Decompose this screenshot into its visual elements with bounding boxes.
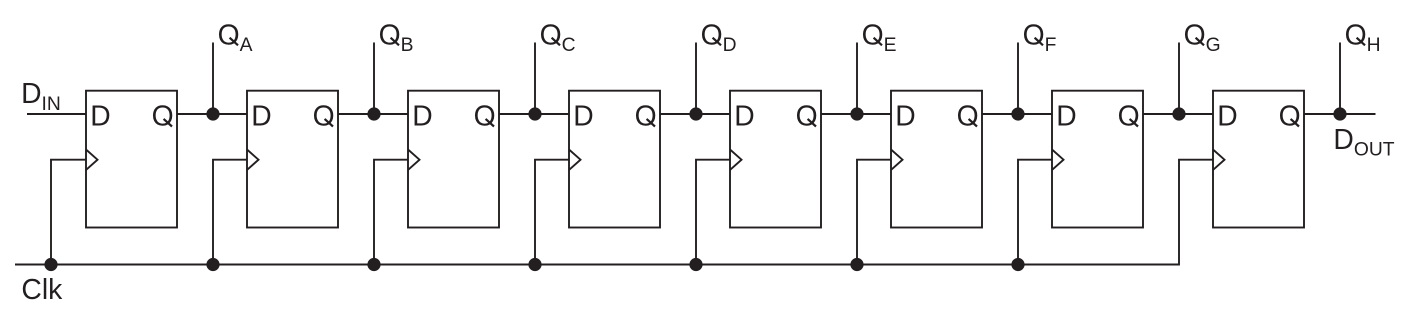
svg-text:DOUT: DOUT [1333,123,1394,161]
wire U4.Q to U5.D [660,113,730,115]
flip-flop U8 body [1213,91,1304,228]
svg-text:OC: OC [540,18,576,56]
U2 clock input triangle [247,150,259,170]
node Clk junction 3 [367,258,380,271]
node QC junction [528,107,541,120]
flip-flop U7 body [1052,91,1143,228]
wire Clk branch to U7 [1018,160,1052,265]
svg-text:O: O [1279,100,1301,132]
svg-text:OA: OA [218,18,253,56]
U5 clock input triangle [730,150,742,170]
flip-flop U2 body [247,91,338,228]
U7 clock input triangle [1052,150,1064,170]
svg-text:OG: OG [1184,18,1221,56]
wire Clk branch to U5 [696,160,730,265]
flip-flop U5 body [730,91,821,228]
svg-text:O: O [635,100,657,132]
svg-text:DIN: DIN [21,77,61,115]
wire QF stub up [1017,43,1019,115]
wire QG stub up [1178,43,1180,115]
svg-text:OH: OH [1345,18,1381,56]
node QB junction [367,107,380,120]
node QG junction [1172,107,1185,120]
svg-text:OB: OB [379,18,414,56]
wire QH stub up [1339,43,1341,115]
wire U5.Q to U6.D [821,113,891,115]
svg-text:D: D [1217,100,1237,132]
node QA junction [206,107,219,120]
wire U2.Q to U3.D [338,113,408,115]
U8 clock input triangle [1213,150,1225,170]
svg-text:OF: OF [1023,18,1057,56]
svg-text:O: O [1118,100,1140,132]
svg-text:D: D [573,100,593,132]
wire U3.Q to U4.D [499,113,569,115]
svg-text:OE: OE [862,18,897,56]
flip-flop U3 body [408,91,499,228]
node Clk junction 7 [1011,258,1024,271]
wire Clk branch to U1 [51,160,86,265]
node Clk junction 6 [850,258,863,271]
svg-text:O: O [474,100,496,132]
node QH junction [1333,107,1346,120]
wire QD stub up [695,43,697,115]
node Clk junction 4 [528,258,541,271]
wire U6.Q to U7.D [982,113,1052,115]
wire U8.Q to Dout [1304,113,1376,115]
svg-text:O: O [152,100,174,132]
wire U7.Q to U8.D [1143,113,1213,115]
svg-text:D: D [412,100,432,132]
U6 clock input triangle [891,150,903,170]
flip-flop U6 body [891,91,982,228]
wire QB stub up [373,43,375,115]
wire Clk branch to U2 [213,160,247,265]
U3 clock input triangle [408,150,420,170]
wire Clk branch to U4 [535,160,569,265]
wire Din input [27,113,86,115]
wire Clk branch to U6 [857,160,891,265]
svg-text:D: D [251,100,271,132]
U4 clock input triangle [569,150,581,170]
wire QE stub up [856,43,858,115]
svg-text:O: O [957,100,979,132]
svg-text:D: D [1056,100,1076,132]
node Clk junction 1 [44,258,57,271]
node QD junction [689,107,702,120]
svg-text:D: D [895,100,915,132]
wire Clk bus [15,160,1213,265]
wire QA stub up [212,43,214,115]
svg-text:Clk: Clk [21,273,63,305]
svg-text:D: D [90,100,110,132]
svg-text:O: O [313,100,335,132]
node QF junction [1011,107,1024,120]
node QE junction [850,107,863,120]
svg-text:OD: OD [701,18,737,56]
flip-flop U1 body [86,91,177,228]
node Clk junction 5 [689,258,702,271]
wire Clk branch to U3 [374,160,408,265]
wire QC stub up [534,43,536,115]
flip-flop U4 body [569,91,660,228]
U1 clock input triangle [86,150,98,170]
svg-text:D: D [734,100,754,132]
wire U1.Q to U2.D [177,113,247,115]
svg-text:O: O [796,100,818,132]
node Clk junction 2 [206,258,219,271]
